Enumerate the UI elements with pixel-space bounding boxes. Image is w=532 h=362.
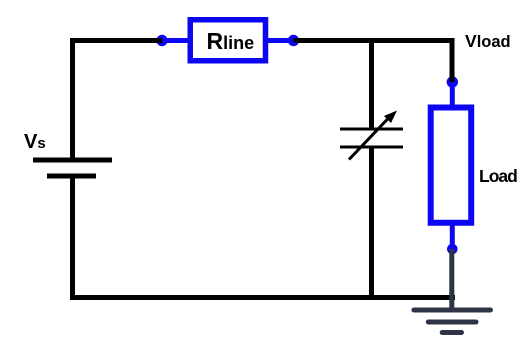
svg-text:Vs: Vs <box>24 131 46 153</box>
svg-text:Load: Load <box>479 166 517 186</box>
svg-text:Vload: Vload <box>465 31 511 51</box>
